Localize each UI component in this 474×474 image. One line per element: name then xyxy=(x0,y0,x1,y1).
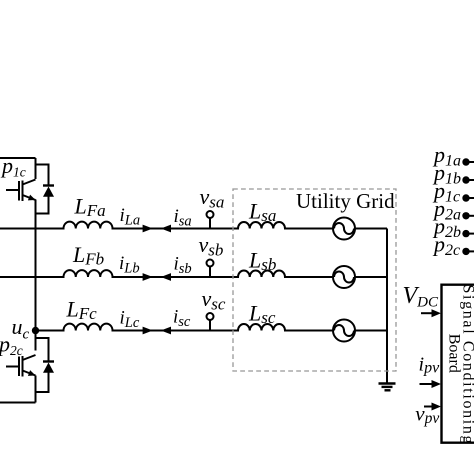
svg-text:Board: Board xyxy=(446,334,463,373)
svg-text:Utility Grid: Utility Grid xyxy=(296,189,395,213)
